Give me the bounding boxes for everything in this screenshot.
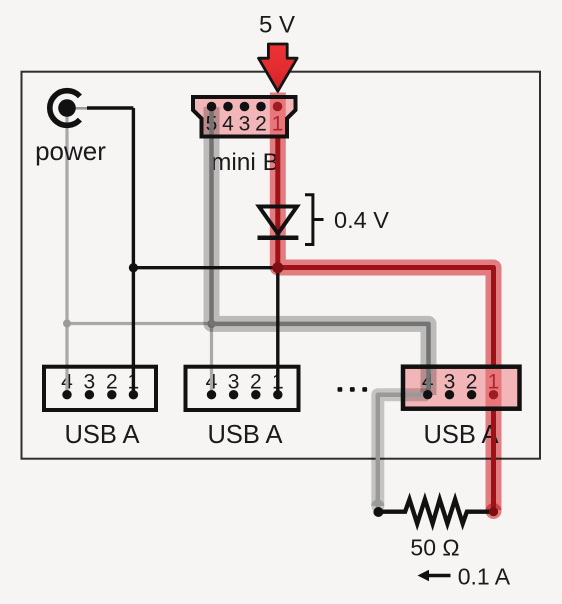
svg-text:3: 3 bbox=[444, 370, 456, 393]
svg-text:USB A: USB A bbox=[64, 421, 139, 449]
svg-text:3: 3 bbox=[228, 370, 240, 393]
wire black 5V bus horizontal bbox=[133, 266, 277, 269]
connector mini B body fill bbox=[193, 97, 296, 137]
wire ground to USB A #1 pin 4 bbox=[65, 324, 68, 396]
pin numbers USB A second 4 3 2 1 bbox=[206, 370, 284, 393]
junction resistor left node bbox=[373, 507, 383, 517]
wire ground thin gray: power jack sleeve down to ground bus bbox=[65, 108, 68, 324]
bracket 0.4V measure bbox=[305, 195, 324, 245]
junction ground bus at power drop bbox=[63, 320, 71, 328]
connector mini B pins dots bbox=[207, 102, 283, 112]
wire highlighted gray return path mini B pin5 to USB A #3 pin 4 (band) bbox=[212, 107, 429, 395]
svg-text:4: 4 bbox=[222, 113, 234, 136]
wire gray USB A #3 pin 4 to resistor core bbox=[378, 395, 428, 508]
wire +5V highlighted red path core bbox=[278, 136, 494, 367]
wire +5V highlighted red path band bbox=[278, 93, 494, 511]
wire black power drop bbox=[132, 108, 135, 268]
power barrel jack symbol bbox=[50, 91, 80, 126]
connector mini B outline bbox=[193, 97, 296, 137]
pin numbers mini B 5 4 3 2 1 bbox=[206, 113, 284, 136]
svg-text:USB A: USB A bbox=[207, 421, 282, 449]
resistor R1 50 ohm bbox=[378, 499, 491, 523]
arrow 5V supply red bbox=[259, 44, 298, 91]
wire black to USB A #2 pin 1 bbox=[276, 268, 279, 395]
junction ground bus at mini B drop bbox=[207, 320, 215, 328]
svg-text:2: 2 bbox=[466, 370, 478, 393]
wire ground bus horizontal bbox=[67, 322, 212, 325]
pin numbers USB A first 4 3 2 1 bbox=[61, 370, 139, 393]
svg-text:2: 2 bbox=[250, 370, 262, 393]
pin numbers USB A third 4 3 2 1 bbox=[422, 370, 499, 393]
wire highlighted gray return path core bbox=[212, 107, 429, 395]
wire ground to USB A #2 pin 4 bbox=[210, 324, 213, 396]
connector USB A #2 pins bbox=[207, 390, 283, 399]
junction resistor right node red bbox=[489, 507, 498, 516]
wire black to USB A #1 pin 1 bbox=[132, 268, 135, 395]
arrow 0.1 A current direction bbox=[418, 570, 451, 582]
svg-text:mini B: mini B bbox=[211, 149, 279, 176]
connector USB A #3 outline bbox=[403, 367, 520, 409]
wire gray USB A #3 pin 4 to resistor (band) bbox=[378, 395, 428, 506]
svg-text:2: 2 bbox=[255, 113, 267, 136]
connector USB A #2 outline bbox=[186, 367, 299, 410]
svg-text:3: 3 bbox=[84, 370, 96, 393]
svg-text:2: 2 bbox=[106, 370, 118, 393]
svg-text:0.4 V: 0.4 V bbox=[334, 207, 389, 233]
connector USB A #3 body fill bbox=[403, 367, 520, 409]
wire black power center pin to corner bbox=[87, 106, 133, 109]
connector USB A #1 pins bbox=[62, 390, 138, 399]
junction 5V bus black bbox=[129, 263, 138, 272]
ellipsis more ports bbox=[338, 387, 368, 392]
svg-text:3: 3 bbox=[239, 113, 251, 136]
svg-text:50 Ω: 50 Ω bbox=[410, 535, 459, 561]
connector USB A #3 pins bbox=[423, 390, 498, 399]
junction diode output red bbox=[272, 262, 283, 273]
diode D1 bbox=[258, 207, 299, 238]
svg-text:power: power bbox=[35, 136, 106, 166]
wire gray stub at power jack bbox=[75, 107, 88, 110]
connector USB A #1 outline bbox=[44, 367, 156, 410]
svg-text:0.1 A: 0.1 A bbox=[458, 564, 511, 590]
svg-text:5 V: 5 V bbox=[259, 12, 295, 39]
